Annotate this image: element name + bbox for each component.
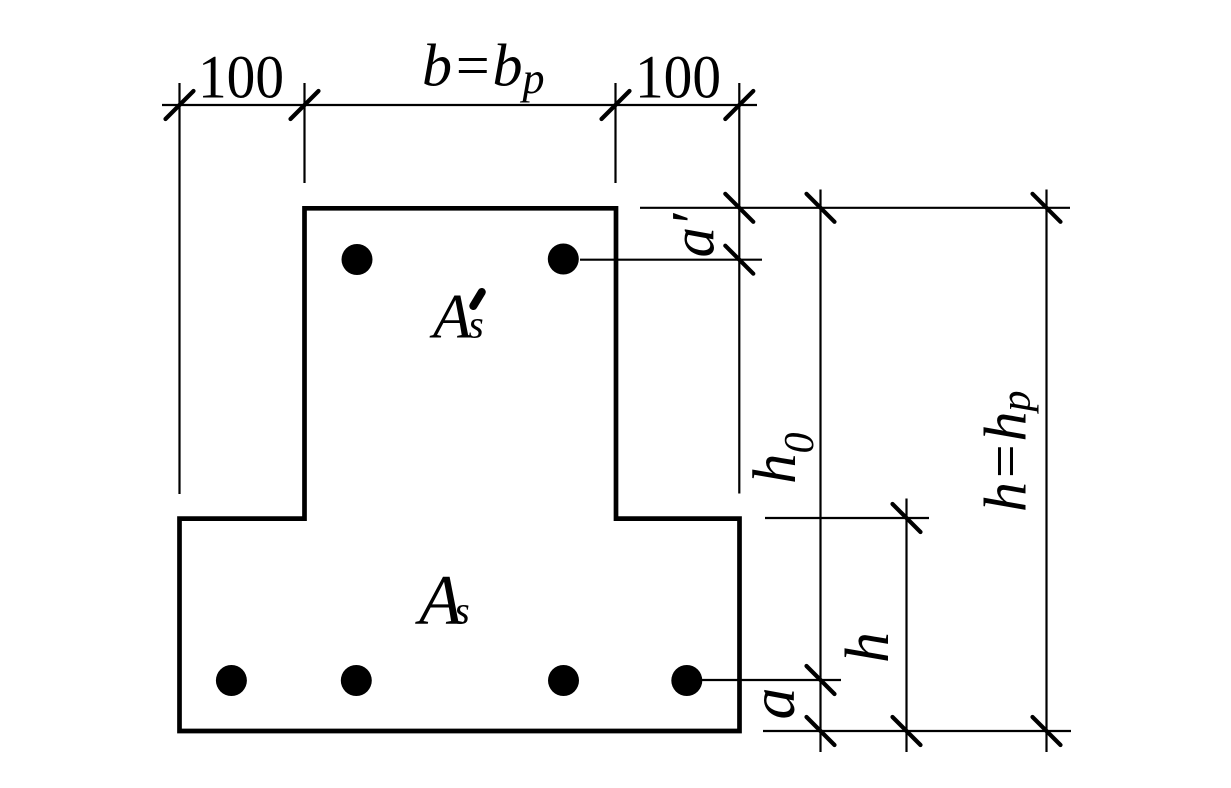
tick top dim at left flange edge	[166, 91, 194, 119]
svg-text:a: a	[737, 688, 808, 720]
dimension line h0/a	[819, 190, 821, 753]
leader line bottom rebar	[700, 679, 841, 681]
extension line web right	[614, 83, 616, 183]
tick h0 bottom	[807, 666, 835, 694]
rebar dot bottom 1	[216, 665, 247, 696]
svg-text:A: A	[429, 281, 472, 352]
tick h top	[893, 504, 921, 532]
dimension line a' / right flange extension	[738, 83, 740, 494]
svg-text:s: s	[455, 590, 470, 633]
prime of A's	[473, 292, 482, 306]
tick h=hp bottom	[1033, 717, 1061, 745]
svg-text:h: h	[834, 632, 902, 663]
extension line flange top	[765, 517, 929, 519]
tick top dim at web left	[291, 91, 319, 119]
top dimension line	[162, 104, 757, 106]
svg-text:100: 100	[635, 45, 721, 112]
svg-text:a′: a′	[661, 212, 728, 258]
concrete T-section outline	[180, 208, 740, 731]
dimension line h	[905, 499, 907, 753]
tick h0 top	[807, 194, 835, 222]
tick h=hp top	[1033, 194, 1061, 222]
dimension line h=hp	[1045, 190, 1047, 753]
rebar dot bottom 4	[671, 665, 702, 696]
svg-text:s: s	[469, 304, 484, 347]
tick top dim at web right	[602, 91, 630, 119]
extension line section top	[640, 207, 1070, 209]
svg-text:100: 100	[198, 45, 284, 112]
leader line top rebar	[580, 259, 762, 261]
rebar dot bottom 2	[341, 665, 372, 696]
extension line web left	[303, 83, 305, 183]
tick top dim at right flange edge	[725, 91, 753, 119]
tick a bottom	[807, 717, 835, 745]
tick h bottom	[893, 717, 921, 745]
extension line section bottom	[763, 730, 1071, 732]
rebar dot top right	[548, 244, 579, 275]
tick a' bottom	[725, 246, 753, 274]
rebar dot top left	[342, 244, 373, 275]
extension line left flange edge	[178, 83, 180, 494]
rebar dot bottom 3	[548, 665, 579, 696]
tick a' top	[725, 194, 753, 222]
